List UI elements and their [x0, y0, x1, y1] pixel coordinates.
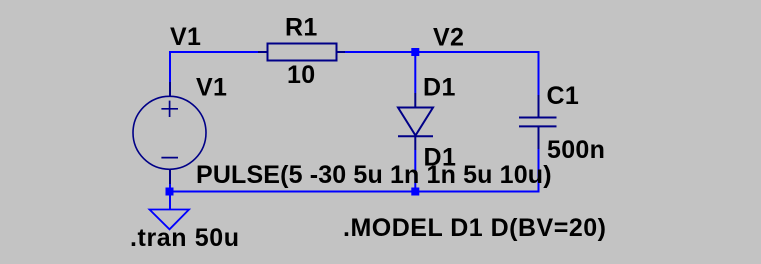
wire capacitor top drop	[538, 51, 540, 95]
svg-text:V2: V2	[433, 24, 464, 52]
wire top horizontal left (node V1 to R1)	[169, 51, 258, 53]
wire source bottom to junction	[169, 184, 171, 191]
wire top-left vertical (V1 node to source)	[169, 51, 171, 82]
svg-text:V1: V1	[170, 23, 201, 51]
node junction V2	[411, 48, 419, 56]
svg-text:500n: 500n	[547, 136, 605, 164]
node junction ground	[166, 188, 174, 196]
wire diode bottom	[414, 150, 416, 192]
svg-text:PULSE(5 -30 5u 1n 1n 5u 10u): PULSE(5 -30 5u 1n 1n 5u 10u)	[196, 161, 552, 189]
wire diode top drop	[414, 52, 416, 93]
wire capacitor bottom drop	[538, 149, 540, 193]
resistor R1	[258, 44, 345, 61]
diode D1	[398, 93, 433, 150]
svg-text:.MODEL D1 D(BV=20): .MODEL D1 D(BV=20)	[343, 214, 606, 242]
svg-text:.tran 50u: .tran 50u	[130, 224, 240, 252]
svg-text:C1: C1	[547, 82, 580, 110]
svg-text:D1: D1	[423, 74, 456, 102]
node junction diode bottom	[411, 188, 419, 196]
voltage source V1	[133, 82, 206, 184]
wire ground stub	[169, 192, 171, 209]
svg-text:10: 10	[287, 61, 315, 89]
capacitor C1	[519, 95, 557, 149]
svg-text:R1: R1	[285, 14, 318, 42]
svg-text:V1: V1	[196, 73, 227, 101]
ground	[150, 210, 190, 230]
wire bottom horizontal	[169, 191, 540, 193]
wire top horizontal right (R1 to C1 corner)	[345, 51, 540, 53]
